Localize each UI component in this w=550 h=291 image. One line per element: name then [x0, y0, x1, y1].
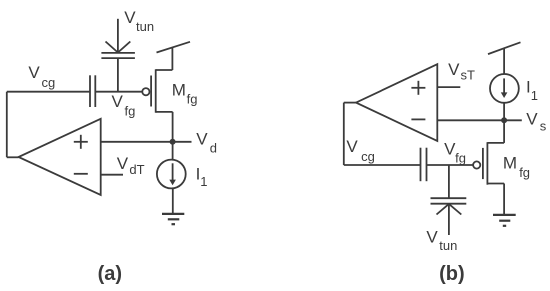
svg-text:(b): (b): [439, 263, 465, 285]
svg-text:V: V: [196, 129, 208, 148]
svg-text:fg: fg: [455, 151, 466, 166]
svg-text:V: V: [526, 109, 538, 128]
svg-text:V: V: [346, 137, 358, 156]
svg-text:cg: cg: [361, 149, 375, 164]
svg-text:V: V: [112, 92, 124, 111]
svg-text:V: V: [448, 60, 460, 79]
svg-text:1: 1: [531, 88, 538, 103]
svg-text:V: V: [117, 154, 129, 173]
svg-text:sT: sT: [461, 67, 476, 82]
svg-text:s: s: [540, 118, 547, 133]
svg-text:cg: cg: [42, 75, 56, 90]
svg-text:V: V: [28, 63, 40, 82]
svg-text:d: d: [210, 141, 217, 156]
svg-text:1: 1: [200, 174, 207, 189]
svg-text:tun: tun: [439, 238, 457, 253]
svg-text:M: M: [503, 154, 517, 173]
svg-text:fg: fg: [519, 165, 530, 180]
svg-text:fg: fg: [187, 92, 198, 107]
svg-text:V: V: [426, 227, 438, 246]
svg-text:dT: dT: [129, 162, 144, 177]
svg-text:M: M: [172, 80, 186, 99]
svg-text:(a): (a): [98, 263, 122, 285]
svg-text:fg: fg: [125, 103, 136, 118]
svg-text:V: V: [124, 8, 136, 27]
svg-text:tun: tun: [136, 19, 154, 34]
